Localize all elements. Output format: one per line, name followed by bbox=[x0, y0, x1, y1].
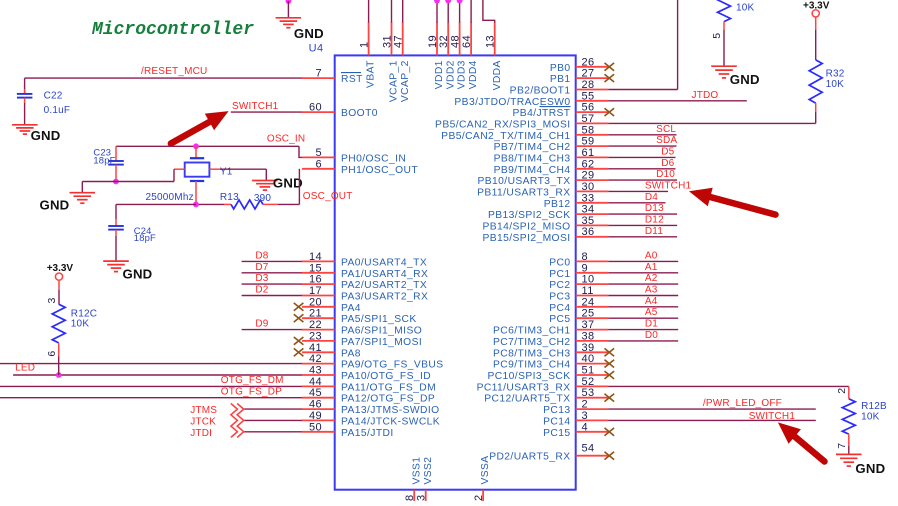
wire PB5 to R32 bbox=[608, 122, 815, 124]
svg-text:9: 9 bbox=[582, 262, 589, 274]
junction OSC_IN / C23 bbox=[193, 143, 199, 149]
pin 52 PC11/USART3_RX stub bbox=[576, 385, 609, 387]
wire D12 bbox=[608, 224, 677, 226]
pin 42 PA9/OTG_FS_VBUS stub bbox=[302, 363, 335, 365]
wire D13 bbox=[608, 213, 677, 215]
net label /RESET_MCU bbox=[141, 66, 207, 77]
svg-text:Y1: Y1 bbox=[220, 166, 233, 177]
svg-text:VCAP_1: VCAP_1 bbox=[389, 60, 400, 102]
pin number 8 bbox=[582, 251, 589, 263]
net label D8 bbox=[255, 250, 268, 261]
wire SWITCH1 to BOOT0 bbox=[231, 111, 302, 113]
pin name PC10/SPI3_SCK bbox=[487, 371, 570, 382]
svg-text:49: 49 bbox=[309, 410, 322, 422]
ground crystal-left bbox=[70, 193, 96, 204]
svg-text:35: 35 bbox=[582, 215, 595, 227]
pin 4 PC15 stub bbox=[576, 431, 609, 433]
net label D9 bbox=[255, 319, 268, 330]
net label D12 bbox=[645, 215, 664, 226]
pin number 30 bbox=[582, 181, 595, 193]
ground C24 bbox=[103, 261, 129, 272]
pin name PB5/CAN2_TX/TIM4_CH1 bbox=[441, 131, 570, 142]
pin name PA8 bbox=[341, 348, 361, 359]
pin name PB10/USART3_TX bbox=[478, 176, 571, 187]
no-connect pin 39 bbox=[605, 348, 615, 356]
svg-text:PB14/SPI2_MISO: PB14/SPI2_MISO bbox=[482, 221, 570, 232]
wire JTDO bbox=[608, 100, 746, 102]
ground top-right resistor bbox=[711, 66, 737, 78]
svg-text:390: 390 bbox=[254, 193, 272, 204]
IC U4 body bbox=[335, 55, 576, 489]
label 10K R12C bbox=[71, 319, 90, 330]
svg-text:GND: GND bbox=[855, 461, 885, 476]
svg-text:BOOT0: BOOT0 bbox=[341, 108, 378, 119]
label 18pF C24 bbox=[134, 232, 156, 243]
svg-text:PA15/JTDI: PA15/JTDI bbox=[341, 428, 394, 439]
pin name PC3 bbox=[549, 292, 570, 303]
pin 10 PC2 stub bbox=[576, 283, 609, 285]
label GND crystal-left bbox=[40, 197, 70, 212]
svg-text:PA6/SPI1_MISO: PA6/SPI1_MISO bbox=[341, 326, 422, 337]
pin number 47 bbox=[393, 35, 405, 48]
pin name PH1/OSC_OUT bbox=[341, 165, 418, 176]
pin 3 PC14 stub bbox=[576, 419, 609, 421]
svg-text:D4: D4 bbox=[645, 192, 658, 203]
net label D4 bbox=[645, 192, 658, 203]
no-connect pin 40 bbox=[605, 360, 615, 368]
pin number 21 bbox=[309, 308, 322, 320]
pin 24 PC4 stub bbox=[576, 306, 609, 308]
pin number 54 bbox=[582, 443, 595, 455]
svg-text:+3.3V: +3.3V bbox=[803, 0, 830, 11]
svg-text:PA8: PA8 bbox=[341, 348, 361, 359]
svg-text:PB15/SPI2_MOSI: PB15/SPI2_MOSI bbox=[482, 233, 570, 244]
wire PB2/BOOT1 up bbox=[608, 0, 677, 90]
net label D3 bbox=[255, 273, 268, 284]
pin 6 PH1/OSC_OUT stub bbox=[302, 168, 335, 170]
no-connect pin 4 bbox=[605, 428, 615, 436]
svg-text:/PWR_LED_OFF: /PWR_LED_OFF bbox=[703, 398, 782, 409]
pin 13 VDDA stub bbox=[494, 22, 496, 55]
svg-text:GND: GND bbox=[123, 267, 153, 282]
pin name RST bbox=[341, 73, 363, 86]
pin name PA1/USART4_RX bbox=[341, 269, 428, 280]
pin 41 PA8 stub bbox=[302, 351, 335, 353]
wire OTG_FS_DP bbox=[0, 397, 302, 399]
pin 29 PB10/USART3_TX stub bbox=[576, 179, 609, 181]
label 10K R32 bbox=[826, 79, 845, 90]
svg-text:PB1: PB1 bbox=[550, 74, 571, 85]
svg-text:D5: D5 bbox=[661, 147, 674, 158]
pin number 64 bbox=[461, 35, 473, 48]
label 0.1uF bbox=[44, 105, 71, 116]
wire D10 bbox=[608, 179, 677, 181]
pin 2 PC13 stub bbox=[576, 408, 609, 410]
svg-text:A2: A2 bbox=[645, 273, 658, 284]
svg-text:27: 27 bbox=[582, 68, 595, 80]
svg-text:55: 55 bbox=[582, 90, 595, 102]
svg-text:OSC_IN: OSC_IN bbox=[267, 133, 305, 144]
pin number 55 bbox=[582, 90, 595, 102]
label GND C22 bbox=[31, 128, 61, 143]
pin name PA2/USART2_TX bbox=[341, 280, 427, 291]
pin 35 PB14/SPI2_MISO stub bbox=[576, 224, 609, 226]
pin 30 PB11/USART3_RX stub bbox=[576, 190, 609, 192]
svg-text:PC15: PC15 bbox=[543, 428, 570, 439]
pin 25 PC5 stub bbox=[576, 317, 609, 319]
pin number 19 bbox=[427, 35, 439, 48]
svg-text:61: 61 bbox=[582, 147, 595, 159]
pin number 48 bbox=[449, 35, 461, 48]
svg-text:3: 3 bbox=[582, 410, 589, 422]
pin number 18 bbox=[404, 494, 416, 506]
pin 32 VDD2 stub bbox=[447, 0, 449, 55]
svg-text:18: 18 bbox=[404, 494, 416, 501]
svg-text:52: 52 bbox=[582, 376, 595, 388]
svg-text:PB13/SPI2_SCK: PB13/SPI2_SCK bbox=[488, 210, 570, 221]
pin name VSS2 bbox=[423, 457, 434, 485]
pin name PC2 bbox=[549, 280, 570, 291]
wire D0 bbox=[608, 340, 678, 342]
svg-text:51: 51 bbox=[582, 365, 595, 377]
pin number 15 bbox=[309, 262, 322, 274]
pin number 33 bbox=[582, 192, 595, 204]
svg-text:JTDI: JTDI bbox=[190, 428, 212, 439]
svg-text:31: 31 bbox=[381, 35, 393, 48]
svg-text:2: 2 bbox=[836, 388, 848, 394]
resistor 10K top-right bbox=[718, 0, 731, 66]
svg-text:SWITCH1: SWITCH1 bbox=[749, 411, 796, 422]
svg-text:VBAT: VBAT bbox=[366, 60, 377, 88]
svg-text:43: 43 bbox=[309, 365, 322, 377]
svg-text:SCL: SCL bbox=[656, 124, 676, 135]
pin 12 VSSA stub bbox=[482, 490, 484, 501]
net label OTG_FS_DP bbox=[221, 387, 282, 398]
pin name PA0/USART4_TX bbox=[341, 257, 427, 268]
svg-text:VDD1: VDD1 bbox=[434, 60, 445, 89]
pin 15 PA1/USART4_RX stub bbox=[302, 272, 335, 274]
pin 36 PB15/SPI2_MOSI stub bbox=[576, 236, 609, 238]
pin 56 PB4/JTRST stub bbox=[576, 111, 609, 113]
net label A1 bbox=[645, 262, 658, 273]
svg-text:PC5: PC5 bbox=[549, 314, 570, 325]
svg-text:58: 58 bbox=[582, 124, 595, 136]
pin 60 BOOT0 stub bbox=[302, 111, 335, 113]
pin name PC11/USART3_RX bbox=[477, 382, 571, 393]
svg-text:57: 57 bbox=[582, 113, 595, 125]
svg-text:13: 13 bbox=[485, 35, 497, 48]
pin number 45 bbox=[309, 387, 322, 399]
net label D5 bbox=[661, 147, 674, 158]
pin 7 RST stub bbox=[302, 77, 335, 79]
pin number 63 bbox=[416, 494, 428, 506]
svg-text:26: 26 bbox=[582, 56, 595, 68]
pin 17 PA3/USART2_RX stub bbox=[302, 295, 335, 297]
svg-text:45: 45 bbox=[309, 387, 322, 399]
svg-text:/RESET_MCU: /RESET_MCU bbox=[141, 66, 207, 77]
pin name PC8/TIM3_CH3 bbox=[493, 348, 570, 359]
pin name PD2/UART5_RX bbox=[489, 452, 570, 463]
pin name PC12/UART5_TX bbox=[484, 394, 570, 405]
pin number 12 bbox=[473, 494, 485, 506]
svg-text:VSS1: VSS1 bbox=[411, 457, 422, 485]
wire A2 bbox=[608, 283, 678, 285]
pin number 22 bbox=[309, 319, 322, 331]
svg-text:PD2/UART5_RX: PD2/UART5_RX bbox=[489, 452, 570, 463]
svg-text:6: 6 bbox=[46, 350, 58, 356]
svg-text:D6: D6 bbox=[661, 158, 674, 169]
pin number 41 bbox=[309, 342, 322, 354]
svg-text:21: 21 bbox=[309, 308, 322, 320]
label R12C bbox=[71, 309, 97, 320]
no-connect pin 54 bbox=[605, 452, 615, 460]
wire LED bbox=[13, 374, 302, 376]
pin name PC14 bbox=[543, 416, 570, 427]
pin number 28 bbox=[582, 79, 595, 91]
pin name PA14/JTCK-SWCLK bbox=[341, 416, 440, 427]
pin name VDDA bbox=[492, 60, 503, 90]
net label JTCK bbox=[190, 416, 216, 427]
net label SDA bbox=[656, 135, 677, 146]
pin 44 PA11/OTG_FS_DM stub bbox=[302, 385, 335, 387]
pin number 42 bbox=[309, 353, 322, 365]
svg-text:PB7/TIM4_CH2: PB7/TIM4_CH2 bbox=[494, 142, 571, 153]
pin 54 PD2/UART5_RX stub bbox=[576, 455, 609, 457]
svg-text:63: 63 bbox=[416, 494, 428, 501]
pin name PA11/OTG_FS_DM bbox=[341, 382, 436, 393]
pin name PA15/JTDI bbox=[341, 428, 394, 439]
pin number 32 bbox=[438, 35, 450, 48]
pin number 3 bbox=[582, 410, 589, 422]
pin name PA12/OTG_FS_DP bbox=[341, 394, 435, 405]
svg-text:10: 10 bbox=[582, 274, 595, 286]
svg-text:R12B: R12B bbox=[861, 401, 887, 412]
junction at top VDD wire bbox=[434, 0, 440, 4]
pin 64 VDD4 stub bbox=[470, 0, 472, 55]
svg-text:PA5/SPI1_SCK: PA5/SPI1_SCK bbox=[341, 314, 417, 325]
pin number 7 of R12B bbox=[836, 442, 848, 448]
svg-text:PA4: PA4 bbox=[341, 303, 361, 314]
net label A3 bbox=[645, 285, 658, 296]
annotation arrow at SWITCH1 right bbox=[689, 188, 776, 215]
pin 45 PA12/OTG_FS_DP stub bbox=[302, 397, 335, 399]
svg-text:17: 17 bbox=[309, 285, 322, 297]
resistor R12C bbox=[52, 280, 65, 375]
svg-text:PA14/JTCK-SWCLK: PA14/JTCK-SWCLK bbox=[341, 416, 440, 427]
net label A4 bbox=[645, 296, 658, 307]
wire OSC_OUT rail bbox=[196, 203, 224, 205]
pin 23 PA7/SPI1_MOSI stub bbox=[302, 340, 335, 342]
pin number 13 bbox=[485, 35, 497, 48]
pin number 2 bbox=[582, 399, 589, 411]
label GND crystal-right bbox=[273, 176, 303, 191]
wire JTMS bbox=[244, 408, 302, 410]
pin name VDD4 bbox=[468, 60, 479, 89]
svg-text:VDD2: VDD2 bbox=[445, 60, 456, 89]
pin name PB5/CAN2_RX/SPI3_MOSI bbox=[435, 119, 570, 130]
pin 59 PB7/TIM4_CH2 stub bbox=[576, 145, 609, 147]
net label D0 bbox=[645, 330, 658, 341]
pin 50 PA15/JTDI stub bbox=[302, 431, 335, 433]
pin number 2 of R12B bbox=[836, 388, 848, 394]
net label LED bbox=[15, 363, 35, 374]
pin name PB0 bbox=[550, 63, 571, 74]
svg-text:PC4: PC4 bbox=[549, 303, 570, 314]
net label OSC_IN bbox=[267, 133, 305, 144]
no-connect pin 21 bbox=[294, 314, 304, 322]
svg-text:C22: C22 bbox=[44, 90, 63, 101]
pin name PA9/OTG_FS_VBUS bbox=[341, 360, 444, 371]
pin 18 VSS1 stub bbox=[413, 490, 415, 501]
label 25000Mhz bbox=[146, 192, 194, 203]
pin number 38 bbox=[582, 330, 595, 342]
pin number 36 bbox=[582, 226, 595, 238]
net label D10 bbox=[656, 169, 675, 180]
svg-text:10K: 10K bbox=[736, 2, 755, 13]
pin number 46 bbox=[309, 399, 322, 411]
svg-text:59: 59 bbox=[582, 136, 595, 148]
svg-text:D11: D11 bbox=[645, 226, 663, 237]
svg-text:A1: A1 bbox=[645, 262, 658, 273]
no-connect pin 56 bbox=[605, 108, 615, 116]
pin name PA7/SPI1_MOSI bbox=[341, 337, 422, 348]
svg-text:PC7/TIM3_CH2: PC7/TIM3_CH2 bbox=[493, 337, 570, 348]
svg-text:JTCK: JTCK bbox=[190, 416, 216, 427]
svg-text:D9: D9 bbox=[255, 319, 268, 330]
pin number 53 bbox=[582, 387, 595, 399]
svg-text:PA13/JTMS-SWDIO: PA13/JTMS-SWDIO bbox=[341, 405, 440, 416]
pin 40 PC9/TIM3_CH4 stub bbox=[576, 363, 609, 365]
label GND C24 bbox=[123, 267, 153, 282]
svg-text:PA10/OTG_FS_ID: PA10/OTG_FS_ID bbox=[341, 371, 431, 382]
wire SWITCH1 bbox=[608, 190, 668, 192]
svg-text:41: 41 bbox=[309, 342, 322, 354]
wire OSC_IN bbox=[116, 146, 302, 157]
pin name PB7/TIM4_CH2 bbox=[494, 142, 571, 153]
svg-text:PB5/CAN2_TX/TIM4_CH1: PB5/CAN2_TX/TIM4_CH1 bbox=[441, 131, 570, 142]
resistor R32 bbox=[809, 17, 822, 123]
svg-text:10K: 10K bbox=[861, 411, 880, 422]
wire A1 bbox=[608, 272, 678, 274]
pin name PB4/JTRST bbox=[513, 107, 571, 120]
net label D7 bbox=[255, 262, 268, 273]
svg-text:0.1uF: 0.1uF bbox=[44, 105, 71, 116]
svg-text:PC8/TIM3_CH3: PC8/TIM3_CH3 bbox=[493, 348, 570, 359]
label GND R12B bbox=[855, 461, 885, 476]
pin 5 PH0/OSC_IN stub bbox=[302, 156, 335, 158]
pin 26 PB0 stub bbox=[576, 66, 609, 68]
pin name PA5/SPI1_SCK bbox=[341, 314, 417, 325]
pin name PA13/JTMS-SWDIO bbox=[341, 405, 440, 416]
svg-text:LED: LED bbox=[15, 363, 35, 374]
pin number 31 bbox=[381, 35, 393, 48]
svg-text:5: 5 bbox=[315, 147, 322, 159]
wire D8 bbox=[242, 260, 302, 262]
pin name PB2/BOOT1 bbox=[510, 86, 571, 97]
svg-text:U4: U4 bbox=[309, 43, 324, 55]
svg-text:2: 2 bbox=[582, 399, 589, 411]
pin 8 PC0 stub bbox=[576, 260, 609, 262]
pin number 20 bbox=[309, 296, 322, 308]
pin 1 VBAT stub bbox=[368, 0, 370, 55]
no-connect pin 26 bbox=[605, 63, 615, 71]
pin name PB13/SPI2_SCK bbox=[488, 210, 570, 221]
svg-text:A4: A4 bbox=[645, 296, 658, 307]
pin number 58 bbox=[582, 124, 595, 136]
schematic title bbox=[91, 20, 254, 40]
svg-text:R32: R32 bbox=[826, 68, 845, 79]
no-connect pin 41 bbox=[294, 348, 304, 356]
pin number 34 bbox=[582, 204, 595, 216]
wire D5 bbox=[608, 156, 675, 158]
svg-text:30: 30 bbox=[582, 181, 595, 193]
svg-text:PB11/USART3_RX: PB11/USART3_RX bbox=[477, 187, 570, 198]
svg-text:25000Mhz: 25000Mhz bbox=[146, 192, 194, 203]
pin name VDD1 bbox=[434, 60, 445, 89]
wire D3 bbox=[242, 283, 302, 285]
pin name PC0 bbox=[549, 257, 570, 268]
label C22 bbox=[44, 90, 63, 101]
svg-text:6: 6 bbox=[315, 158, 322, 170]
label R12B bbox=[861, 401, 887, 412]
svg-text:62: 62 bbox=[582, 158, 595, 170]
pin number 6 bbox=[315, 158, 322, 170]
pin number 5 bbox=[315, 147, 322, 159]
label GND top-right bbox=[730, 72, 760, 87]
svg-text:JTMS: JTMS bbox=[190, 405, 217, 416]
junction C23 / ground rail bbox=[113, 179, 119, 185]
capacitor C22 bbox=[17, 78, 33, 125]
pin number 37 bbox=[582, 319, 595, 331]
wire PC11 to R12B bbox=[608, 385, 848, 387]
svg-text:24: 24 bbox=[582, 296, 595, 308]
wire SWITCH1 bottom bbox=[608, 419, 815, 421]
pin number 9 bbox=[582, 262, 589, 274]
resistor R13 bbox=[224, 200, 278, 209]
wire VDDA jog bbox=[483, 0, 495, 23]
pin 53 PC12/UART5_TX stub bbox=[576, 397, 609, 399]
svg-text:4: 4 bbox=[582, 421, 589, 433]
net label A5 bbox=[645, 307, 658, 318]
no-connect pin 53 bbox=[605, 394, 615, 402]
svg-text:D2: D2 bbox=[255, 285, 268, 296]
svg-text:10K: 10K bbox=[826, 79, 845, 90]
label 390 bbox=[254, 193, 272, 204]
wire JTDI bbox=[244, 431, 302, 433]
svg-text:5: 5 bbox=[711, 32, 723, 38]
svg-text:28: 28 bbox=[582, 79, 595, 91]
svg-text:PB5/CAN2_RX/SPI3_MOSI: PB5/CAN2_RX/SPI3_MOSI bbox=[435, 119, 570, 130]
svg-text:PA2/USART2_TX: PA2/USART2_TX bbox=[341, 280, 427, 291]
svg-text:VCAP_2: VCAP_2 bbox=[400, 60, 411, 102]
pin number 10 bbox=[582, 274, 595, 286]
pin number 57 bbox=[582, 113, 595, 125]
svg-text:60: 60 bbox=[309, 102, 322, 114]
pin number 7 bbox=[315, 68, 322, 80]
wire OTG_FS_DM bbox=[0, 385, 302, 387]
pin 31 VCAP_1 stub bbox=[391, 0, 393, 55]
svg-text:34: 34 bbox=[582, 204, 595, 216]
svg-text:D12: D12 bbox=[645, 215, 664, 226]
IC U4 refdes bbox=[309, 43, 324, 55]
wire A3 bbox=[608, 295, 678, 297]
wire A0 bbox=[608, 260, 678, 262]
label R32 bbox=[826, 68, 845, 79]
pin name PC1 bbox=[549, 269, 570, 280]
wire D7 bbox=[242, 272, 302, 274]
net label D2 bbox=[255, 285, 268, 296]
svg-text:+3.3V: +3.3V bbox=[47, 263, 74, 274]
